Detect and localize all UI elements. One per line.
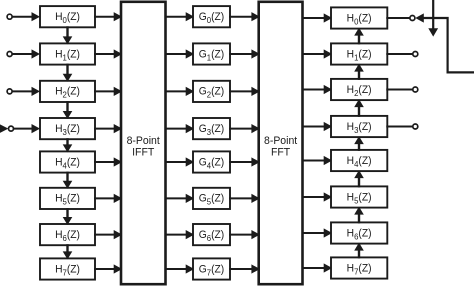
chain wire right H2(z) up to H1(z) — [354, 64, 364, 80]
wire FFT output 6 to right H6(z) — [302, 228, 333, 237]
synthesis filter H2(z) — [331, 79, 387, 100]
output terminal node y2 — [413, 87, 418, 92]
svg-text:IFFT: IFFT — [132, 146, 154, 158]
wire G1(z) to FFT input 1 — [229, 49, 260, 58]
delay chain wire H6(z) down to H7(z) — [63, 244, 73, 259]
wire input 3 to H3(z) — [14, 124, 40, 133]
filter G6(z) — [193, 224, 230, 245]
synthesis filter H0(z) — [331, 7, 387, 28]
wire FFT output 5 to right H5(z) — [302, 192, 333, 201]
wire input 1 to H1(z) — [12, 49, 40, 58]
wire IFFT output 6 to G6(z) — [165, 230, 195, 239]
analysis filter H4(z) — [40, 151, 95, 172]
synthesis filter H6(z) — [331, 222, 387, 243]
output wire right H1(z) to node y1 — [386, 53, 412, 55]
delay chain wire H3(z) down to H4(z) — [63, 138, 73, 152]
wire FFT output 0 to right H0(z) — [302, 13, 333, 22]
wire IFFT output 3 to G3(z) — [165, 124, 195, 133]
analysis filter H6(z) — [40, 224, 95, 245]
wire IFFT output 7 to G7(z) — [165, 264, 195, 273]
analysis filter H1(z) — [40, 43, 95, 64]
wire FFT output 3 to right H3(z) — [302, 122, 333, 131]
wire input 2 to H2(z) — [12, 87, 40, 96]
input drop arrow from top edge — [428, 0, 438, 37]
wire G2(z) to FFT input 2 — [229, 87, 260, 96]
wire H7(z) to IFFT input 7 — [94, 264, 122, 273]
wire H6(z) to IFFT input 6 — [94, 230, 122, 239]
chain wire right H7(z) up to H6(z) — [354, 243, 364, 259]
output wire right H0(z) to node y0 — [386, 17, 409, 19]
wire IFFT output 2 to G2(z) — [165, 87, 195, 96]
output wire right H3(z) to node y3 — [386, 126, 412, 128]
delay chain wire H4(z) down to H5(z) — [63, 172, 73, 189]
wire G6(z) to FFT input 6 — [229, 230, 260, 239]
wire H3(z) to IFFT input 3 — [94, 124, 122, 133]
svg-text:FFT: FFT — [271, 146, 290, 158]
filter G0(z) — [193, 6, 230, 27]
input terminal node x2 — [7, 89, 12, 94]
chain wire right H4(z) up to H3(z) — [354, 136, 364, 151]
synthesis filter H4(z) — [331, 150, 387, 171]
analysis filter H7(z) — [40, 258, 95, 279]
filter G3(z) — [193, 118, 230, 139]
wire FFT output 1 to right H1(z) — [302, 49, 333, 58]
output terminal node y0 — [410, 16, 415, 21]
wire H1(z) to IFFT input 1 — [94, 49, 122, 58]
delay chain wire H1(z) down to H2(z) — [63, 64, 73, 82]
filter G5(z) — [193, 188, 230, 209]
output wire right H2(z) to node y2 — [386, 89, 412, 91]
delay chain wire H0(z) down to H1(z) — [63, 26, 73, 44]
wire H2(z) to IFFT input 2 — [94, 87, 122, 96]
wire G5(z) to FFT input 5 — [229, 194, 260, 203]
delay chain wire H2(z) down to H3(z) — [63, 101, 73, 119]
input arrow into node x3 — [0, 124, 8, 134]
input terminal node x3 — [9, 126, 14, 131]
wire G0(z) to FFT input 0 — [229, 12, 260, 21]
input terminal node x1 — [7, 52, 12, 57]
synthesis filter H7(z) — [331, 257, 387, 278]
chain wire right H3(z) up to H2(z) — [354, 99, 364, 117]
arrow into node y0 from feed line — [415, 13, 424, 22]
analysis filter H3(z) — [40, 118, 95, 139]
analysis filter H5(z) — [40, 188, 95, 209]
wire H0(z) to IFFT input 0 — [94, 12, 122, 21]
8-Point IFFT block U1 — [121, 2, 166, 284]
synthesis filter H3(z) — [331, 116, 387, 137]
filter G4(z) — [193, 151, 230, 172]
synthesis filter H1(z) — [331, 43, 387, 64]
wire H4(z) to IFFT input 4 — [94, 157, 122, 166]
wire IFFT output 0 to G0(z) — [165, 12, 195, 21]
wire IFFT output 4 to G4(z) — [165, 157, 195, 166]
input terminal node x0 — [7, 14, 12, 19]
analysis filter H2(z) — [40, 81, 95, 102]
output terminal node y1 — [413, 52, 418, 57]
filter G2(z) — [193, 81, 230, 102]
chain wire right H5(z) up to H4(z) — [354, 170, 364, 187]
wire H5(z) to IFFT input 5 — [94, 194, 122, 203]
wire G3(z) to FFT input 3 — [229, 124, 260, 133]
wire G7(z) to FFT input 7 — [229, 264, 260, 273]
filter G7(z) — [193, 258, 230, 279]
wire FFT output 7 to right H7(z) — [302, 263, 333, 272]
feed wire corner segment — [424, 18, 474, 72]
synthesis filter H5(z) — [331, 186, 387, 207]
wire FFT output 2 to right H2(z) — [302, 85, 333, 94]
8-Point FFT block U2 — [259, 2, 303, 284]
filter G1(z) — [193, 43, 230, 64]
wire IFFT output 1 to G1(z) — [165, 49, 195, 58]
chain wire right H6(z) up to H5(z) — [354, 207, 364, 224]
wire G4(z) to FFT input 4 — [229, 157, 260, 166]
wire IFFT output 5 to G5(z) — [165, 194, 195, 203]
analysis filter H0(z) — [40, 6, 95, 27]
delay chain wire H5(z) down to H6(z) — [63, 208, 73, 225]
wire input 0 to H0(z) — [12, 12, 40, 21]
wire FFT output 4 to right H4(z) — [302, 156, 333, 165]
chain wire right H1(z) up to H0(z) — [354, 28, 364, 45]
output terminal node y3 — [413, 124, 418, 129]
